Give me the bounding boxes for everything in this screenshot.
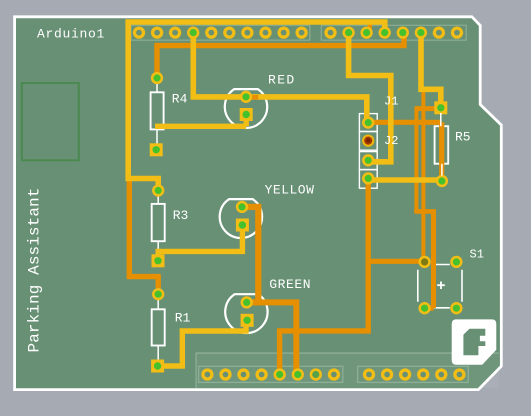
wire orange left bus to R1 top xyxy=(129,177,158,288)
silkscreen header rect bottom-right xyxy=(358,366,469,382)
svg-text:YELLOW: YELLOW xyxy=(265,183,315,198)
resistor R1 pads xyxy=(152,288,164,300)
svg-text:J1: J1 xyxy=(384,95,398,109)
svg-text:S1: S1 xyxy=(470,248,484,262)
resistor R3 leads xyxy=(157,196,159,255)
svg-text:Arduino1: Arduino1 xyxy=(37,27,105,42)
connector J2 outline xyxy=(359,152,377,170)
wire yellow J2 pad2 to R5 bottom xyxy=(368,177,442,183)
LED D3 GREEN outline xyxy=(225,294,267,333)
wire yellow RED led square to R4 bottom xyxy=(155,110,246,126)
connector J1 outline xyxy=(359,114,377,132)
LED RED pads xyxy=(240,91,252,103)
svg-text:Parking Assistant: Parking Assistant xyxy=(26,188,44,353)
wire orange H1 to R5 top xyxy=(416,106,437,111)
fritzing logo xyxy=(452,319,497,364)
connector J2 pads xyxy=(362,154,374,166)
wire yellow header pin4 to RED led to J1 xyxy=(193,33,366,123)
resistor R5 body xyxy=(435,126,449,164)
LED D2 YELLOW outline xyxy=(220,199,262,238)
wire orange V2 header to S1 xyxy=(421,91,425,262)
wire orange LED green to bottom header xyxy=(252,302,296,374)
silkscreen header rect top-right xyxy=(321,25,466,40)
wire orange V1 xyxy=(414,106,418,211)
svg-text:R3: R3 xyxy=(173,208,189,223)
svg-text:GREEN: GREEN xyxy=(269,277,311,292)
wire orange stub above header pin xyxy=(368,22,372,30)
LED D1 RED outline xyxy=(225,89,267,128)
wire yellow R1 bottom to GREEN led square xyxy=(158,320,246,366)
wire orange header to R4 top xyxy=(157,33,404,78)
wire orange J1 pad1 to R5 under-trace xyxy=(369,122,442,181)
svg-text:RED: RED xyxy=(268,73,296,88)
switch S1 pads xyxy=(418,256,430,268)
resistor R5 leads xyxy=(441,113,442,176)
header top-left row pins 1-10 xyxy=(133,26,145,38)
svg-text:R1: R1 xyxy=(175,311,191,326)
connector J1 pads xyxy=(362,116,374,128)
resistor R5 pads xyxy=(434,101,447,114)
silkscreen bottom band xyxy=(196,353,499,388)
wire orange stub at RED led pad xyxy=(251,95,258,100)
header top-right row pins 1-8 xyxy=(324,26,336,38)
silkscreen header rect bottom-left xyxy=(199,366,343,382)
switch S1 outline xyxy=(418,265,462,308)
wire yellow header to R5 top xyxy=(421,33,441,103)
resistor R4 body xyxy=(151,92,164,129)
wire yellow YELLOW led square to R3 bottom xyxy=(158,225,242,261)
wire orange LED yellow to LED green xyxy=(242,207,258,303)
resistor R3 pads xyxy=(152,184,164,196)
LED GREEN pads xyxy=(241,296,253,308)
wire orange jog xyxy=(414,209,433,214)
resistor R4 pads xyxy=(151,72,163,84)
silkscreen header rect top-left xyxy=(131,25,310,40)
svg-text:R4: R4 xyxy=(172,92,188,107)
wire yellow header to J2 pad1 xyxy=(349,33,391,162)
svg-text:R5: R5 xyxy=(455,130,471,145)
header bottom-left row pins 1-8 xyxy=(201,368,213,380)
svg-text:J2: J2 xyxy=(384,134,398,148)
wire orange V3 to S1 BL xyxy=(426,209,434,308)
LED YELLOW pads xyxy=(236,201,248,213)
header bottom-right row pins 1-6 xyxy=(363,368,375,380)
wire orange branch to S1 TL xyxy=(367,259,425,264)
resistor R4 leads xyxy=(156,84,158,144)
resistor R1 leads xyxy=(157,300,159,360)
silkscreen power jack rectangle xyxy=(22,83,79,160)
wire orange J2 pad2 down to bottom header xyxy=(280,184,369,375)
resistor R1 body xyxy=(152,309,165,345)
wire yellow top bus and left bus to R3 xyxy=(128,22,385,191)
switch S1 plus sign xyxy=(437,282,445,290)
resistor R3 body xyxy=(152,204,165,241)
